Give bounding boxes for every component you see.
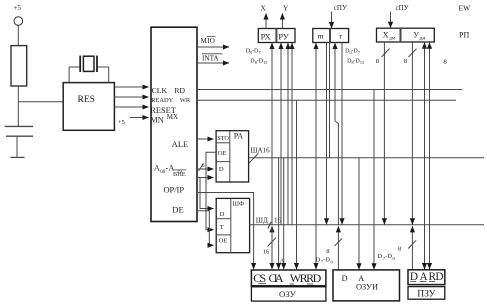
register Xdm Ydm (377, 28, 435, 42)
wire PZU D to ShD with 8 slash (398, 226, 416, 270)
wire WR to OZUI (358, 158, 360, 270)
wire OP/IP to RAM CS (197, 193, 254, 270)
svg-text:EW: EW (459, 4, 472, 13)
svg-text:RES: RES (78, 95, 95, 105)
wire r to ShA (329, 43, 331, 158)
wire +5 to MN (130, 117, 149, 119)
wire DE to ShF OE (197, 211, 214, 246)
svg-text:ПЗУ: ПЗУ (417, 289, 435, 299)
RAM OZU (251, 270, 326, 301)
svg-text:дм: дм (420, 37, 427, 42)
wire RES to RESET (114, 106, 148, 108)
svg-text:X: X (260, 4, 266, 13)
INTA output label (202, 54, 223, 63)
label D7-D0 right (378, 253, 396, 261)
wire resistor to capacitor (17, 86, 19, 126)
wire WR bus (197, 99, 456, 101)
svg-text:У: У (413, 31, 419, 40)
svg-text:РП: РП (459, 31, 469, 40)
svg-text:D: D (342, 274, 348, 283)
svg-text:OE: OE (219, 238, 228, 245)
address bus ShA (249, 147, 484, 164)
node sPU 1 (332, 4, 347, 28)
wire OZUI D to ShD with 8 slash (326, 226, 342, 270)
reset generator RES (63, 83, 114, 131)
svg-text:A: A (280, 257, 285, 264)
wire Ydm input / PZU RD (429, 43, 431, 270)
svg-text:сПУ: сПУ (396, 4, 409, 12)
crystal mount bracket (69, 67, 109, 83)
svg-text:D: D (316, 257, 321, 264)
svg-text:8: 8 (376, 58, 379, 65)
quartz crystal Q (80, 56, 97, 72)
svg-text:OP/IP: OP/IP (164, 185, 185, 194)
svg-text:ALE: ALE (172, 140, 188, 149)
wire r input (335, 43, 338, 225)
node X output (260, 4, 266, 29)
svg-text:8: 8 (326, 248, 329, 255)
node +5 supply label (14, 4, 22, 12)
svg-text:РХ: РХ (261, 33, 271, 42)
capacitor C1 (5, 126, 33, 157)
svg-text:15: 15 (360, 60, 364, 65)
svg-text:-D: -D (385, 253, 392, 260)
wire RD to OZUI (373, 90, 375, 270)
svg-text:CIA: CIA (269, 271, 284, 285)
wire Xdm to ShD with 8 slash (376, 42, 390, 224)
svg-text:Х: Х (383, 31, 389, 40)
resistor R1 (11, 46, 27, 86)
svg-text:IO: IO (207, 37, 215, 45)
label 8 floating (444, 59, 447, 66)
svg-text:A: A (358, 274, 364, 283)
+5 pin circle (14, 17, 23, 26)
svg-text:ШФ: ШФ (232, 200, 244, 207)
svg-text:0: 0 (331, 259, 334, 264)
svg-text:РА: РА (234, 132, 243, 141)
M/IO output label (201, 37, 216, 45)
svg-text:ШД: ШД (256, 217, 268, 225)
svg-text:BHE: BHE (173, 171, 186, 178)
wire WR to RAM (296, 100, 298, 269)
svg-text:6: 6 (202, 163, 205, 169)
address latch PA (216, 131, 249, 182)
svg-text:сПУ: сПУ (334, 4, 347, 12)
svg-text:WRRD: WRRD (290, 271, 322, 285)
svg-text:7: 7 (358, 50, 360, 55)
wire ShA to RAM A1 (278, 158, 280, 269)
svg-text:16: 16 (263, 249, 270, 256)
node Y output (282, 4, 289, 29)
svg-text:DE: DE (172, 205, 183, 215)
wire node to RES (18, 101, 63, 103)
node sPU 2 (391, 4, 409, 28)
wire ALE to STO (197, 138, 214, 140)
svg-text:8: 8 (404, 58, 407, 65)
node RP (459, 31, 469, 40)
wire PY input 1 (280, 43, 282, 225)
wire r to ShD 1 (326, 43, 328, 225)
svg-text:r: r (339, 31, 342, 40)
label D7-D0 left (316, 257, 334, 265)
svg-text:MN: MN (150, 115, 164, 124)
RAM OZUI (333, 270, 400, 301)
svg-text:РУ: РУ (278, 33, 288, 42)
ROM PZU (408, 270, 445, 300)
wire r to ShD 2 (341, 43, 343, 225)
svg-text:16: 16 (274, 217, 282, 225)
svg-text:8: 8 (398, 246, 401, 253)
svg-text:,: , (268, 219, 270, 227)
wire INTA (197, 62, 229, 64)
node +5 at MN pin (118, 119, 125, 126)
wire circle to resistor R1 (17, 25, 19, 45)
register PX PY (258, 29, 295, 43)
svg-text:CLK: CLK (152, 86, 168, 95)
wire A to PA D (197, 163, 214, 171)
svg-text:MX: MX (167, 113, 178, 121)
svg-text:Y: Y (283, 4, 289, 13)
svg-text:D: D (219, 166, 224, 173)
svg-text:0: 0 (393, 256, 396, 261)
svg-text:m: m (318, 31, 324, 40)
CPU U1 (150, 27, 197, 221)
wire OE stub (206, 152, 216, 229)
svg-text:D: D (378, 253, 383, 260)
wire RD bus (197, 89, 462, 91)
svg-text:INTA: INTA (202, 54, 219, 62)
svg-text:A: A (154, 164, 160, 173)
wire Ydm to ShD with 8 slash (404, 42, 417, 224)
data buffer ShF (216, 198, 249, 252)
svg-text:8: 8 (444, 59, 447, 66)
label D8-D15 left (250, 59, 267, 66)
node EW (459, 4, 472, 13)
svg-text:дм: дм (389, 37, 396, 42)
wire PX to RAM D with 16 slash (263, 226, 276, 269)
wire Ydm input / PZU A (424, 43, 426, 270)
wire RES to READY (114, 96, 148, 98)
svg-text:D: D (220, 211, 225, 218)
wire RES to CLK (114, 86, 148, 88)
label D0-D7 left (246, 48, 261, 55)
wire A branch to ShF D (197, 178, 214, 209)
data bus ShD (250, 217, 484, 229)
wire PY input 3 (291, 43, 293, 225)
register m r (313, 29, 349, 43)
wire M/IO (197, 46, 229, 48)
svg-text:7: 7 (259, 50, 261, 55)
svg-text:ША16: ША16 (251, 147, 271, 155)
svg-text:-D: -D (323, 257, 330, 264)
svg-text:+5: +5 (118, 119, 125, 126)
svg-text:STO: STO (217, 135, 229, 142)
svg-text:ОЗУ: ОЗУ (279, 289, 297, 299)
label D8-D15 right (347, 59, 364, 66)
svg-text:READY: READY (151, 97, 173, 104)
svg-text:CS: CS (253, 271, 266, 285)
svg-text:RD: RD (174, 86, 185, 95)
wire PY input 2 (287, 43, 289, 225)
svg-text:OE: OE (218, 150, 227, 157)
svg-text:T: T (220, 224, 224, 231)
svg-text:ОЗУИ: ОЗУИ (356, 283, 378, 292)
svg-text:+5: +5 (14, 4, 22, 12)
wire PX data input (271, 43, 273, 225)
ground (10, 156, 24, 158)
wire RD to RAM via m (315, 43, 317, 269)
svg-text:WR: WR (180, 97, 191, 104)
wire ShA to RAM A2 (280, 158, 285, 269)
label D0-D7 right (345, 48, 360, 55)
svg-text:15: 15 (263, 60, 267, 65)
